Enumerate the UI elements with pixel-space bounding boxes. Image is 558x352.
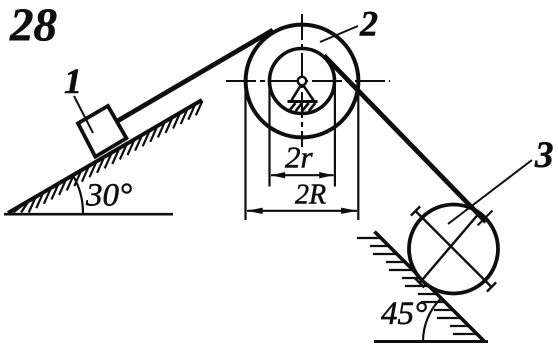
svg-text:3: 3: [534, 135, 554, 176]
svg-text:45°: 45°: [381, 296, 427, 332]
svg-text:30°: 30°: [85, 178, 132, 214]
svg-text:28: 28: [9, 0, 57, 51]
svg-text:2R: 2R: [295, 180, 326, 211]
svg-text:2r: 2r: [285, 140, 314, 175]
svg-text:2: 2: [359, 4, 378, 44]
svg-text:1: 1: [64, 61, 82, 101]
